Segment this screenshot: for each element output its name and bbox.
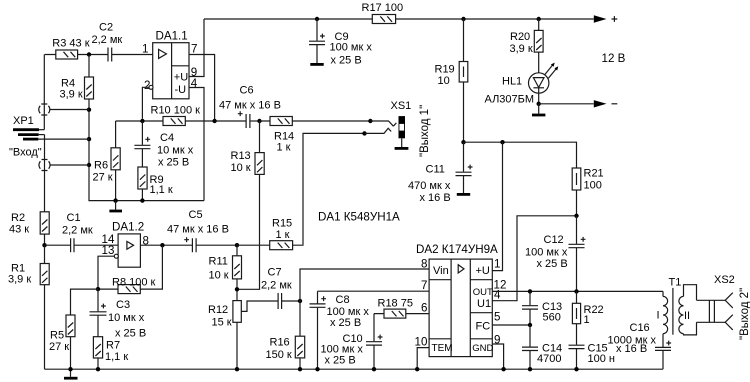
- node R11-R12-R13 junction: [235, 287, 239, 291]
- svg-text:x 16 В: x 16 В: [420, 192, 451, 204]
- node jack2 tap: [87, 163, 91, 167]
- svg-text:+U: +U: [476, 265, 490, 277]
- svg-text:470 мк x: 470 мк x: [408, 180, 451, 192]
- wire C11 node to R21: [464, 142, 577, 168]
- svg-text:1: 1: [142, 43, 148, 56]
- svg-text:C3: C3: [116, 299, 130, 311]
- node rail pin9: [501, 367, 505, 371]
- wire minus line: [539, 103, 594, 105]
- capacitor C12: [525, 216, 586, 292]
- node rail pin10: [415, 367, 419, 371]
- wire pin2 to R10 node: [142, 87, 149, 119]
- svg-text:2,2 мк: 2,2 мк: [92, 34, 123, 46]
- svg-text:XP1: XP1: [13, 115, 34, 127]
- transformer T1 core: [672, 288, 674, 335]
- node R2-R1-C1 junction: [42, 243, 46, 247]
- resistor R10: [151, 105, 201, 126]
- node DA1.2 output junction: [160, 243, 164, 247]
- label minus: [612, 103, 618, 105]
- svg-text:27 к: 27 к: [93, 172, 113, 184]
- wire pin7 line C8: [318, 291, 430, 303]
- op-amp DA1.2: [112, 221, 144, 268]
- svg-text:12 В: 12 В: [602, 52, 626, 65]
- svg-text:C7: C7: [268, 267, 282, 279]
- node rail C10: [372, 367, 376, 371]
- svg-text:R19: R19: [435, 64, 455, 76]
- svg-text:47 мк x 16 В: 47 мк x 16 В: [167, 224, 229, 236]
- node R19 top: [461, 17, 465, 21]
- svg-text:10 к: 10 к: [231, 162, 251, 174]
- resistor R3: [52, 38, 89, 60]
- svg-text:10 к: 10 к: [209, 270, 229, 282]
- svg-text:R16: R16: [270, 337, 290, 349]
- svg-text:100 мк x: 100 мк x: [330, 42, 373, 54]
- wire pin5: [492, 324, 530, 326]
- arrow minus terminal: [594, 100, 607, 107]
- transformer T1 winding I: [657, 291, 668, 347]
- svg-text:R11: R11: [209, 256, 228, 268]
- wire DA1.2 output: [140, 244, 192, 246]
- ground symbol bottom rail: [64, 369, 78, 378]
- svg-text:C8: C8: [336, 294, 350, 306]
- svg-text:C16: C16: [630, 322, 650, 334]
- node R9 bottom on gnd rail: [140, 198, 144, 202]
- capacitor C11: [408, 142, 473, 204]
- svg-text:15 к: 15 к: [212, 317, 232, 329]
- svg-text:R7: R7: [106, 340, 120, 352]
- svg-text:x 25 В: x 25 В: [115, 328, 146, 340]
- svg-text:1,1 к: 1,1 к: [105, 351, 128, 363]
- node R3-C2-R4 junction: [87, 52, 91, 56]
- svg-text:Vin: Vin: [433, 265, 449, 277]
- node C11 top junction: [461, 140, 465, 144]
- resistor R12 with tap: [208, 301, 278, 370]
- svg-text:x 16 В: x 16 В: [616, 343, 647, 355]
- svg-text:C2: C2: [99, 22, 113, 34]
- capacitor C6: [219, 85, 281, 129]
- node C5 right junction: [235, 243, 239, 247]
- node HL1 bottom: [537, 102, 541, 106]
- svg-text:100: 100: [584, 180, 602, 192]
- capacitor C10: [321, 314, 383, 370]
- wire middle ground column x89: [89, 104, 204, 201]
- wire R10 line y121: [116, 120, 246, 122]
- svg-text:1: 1: [494, 258, 500, 271]
- connector XP1 plug bars: [13, 115, 89, 139]
- connector XS1 ground: [395, 138, 409, 148]
- node pin1 riser junction: [500, 140, 504, 144]
- svg-text:1,1 к: 1,1 к: [150, 184, 173, 196]
- arrow plus terminal: [594, 15, 607, 22]
- pin 2 inversion circle DA1.1: [149, 85, 153, 89]
- svg-text:x 25 В: x 25 В: [325, 355, 356, 367]
- svg-text:150 к: 150 к: [266, 349, 292, 361]
- node R6 bottom on gnd rail: [113, 198, 117, 202]
- node rail C14: [528, 367, 532, 371]
- svg-text:R3 43 к: R3 43 к: [52, 38, 89, 50]
- wire pin13 feedback: [98, 256, 114, 289]
- capacitor C16: [608, 322, 672, 369]
- svg-text:R8 100 к: R8 100 к: [112, 277, 156, 289]
- wire pin4 link: [492, 216, 576, 301]
- svg-text:10: 10: [415, 336, 428, 349]
- node rail R5: [68, 367, 72, 371]
- svg-text:1 к: 1 к: [276, 229, 290, 241]
- node rail C8: [315, 367, 319, 371]
- svg-text:GND: GND: [472, 343, 493, 354]
- svg-text:7: 7: [191, 43, 197, 56]
- svg-text:HL1: HL1: [502, 76, 522, 88]
- resistor R15: [237, 218, 303, 250]
- svg-text:DA1 К548УН1А: DA1 К548УН1А: [318, 211, 400, 224]
- wire to R5: [71, 289, 99, 315]
- resistor R22: [572, 291, 603, 344]
- svg-text:1: 1: [584, 314, 590, 326]
- resistor R19: [435, 19, 468, 142]
- svg-text:43 к: 43 к: [9, 224, 29, 236]
- resistor R5: [49, 315, 75, 369]
- svg-text:10: 10: [438, 75, 450, 87]
- connector XS1 lower contact: [365, 128, 392, 133]
- wire pin12 out rail: [492, 290, 663, 292]
- wire pin4 to ground rail: [189, 88, 204, 201]
- capacitor C14: [522, 325, 562, 369]
- svg-text:2,2 мк: 2,2 мк: [62, 225, 93, 237]
- capacitor C9: [309, 19, 372, 67]
- svg-text:R18 75: R18 75: [378, 298, 413, 310]
- wire pin10: [417, 348, 429, 370]
- connector XS2 wires and pins: [697, 300, 726, 322]
- svg-text:R13: R13: [231, 150, 251, 162]
- resistor R14: [260, 117, 371, 154]
- svg-text:FC: FC: [476, 321, 491, 333]
- svg-text:4: 4: [494, 289, 501, 302]
- capacitor C5: [167, 209, 237, 252]
- wire pin9 to top rail: [189, 19, 204, 77]
- svg-text:2,2 мк: 2,2 мк: [261, 280, 292, 292]
- svg-text:x 25 В: x 25 В: [537, 258, 568, 270]
- resistor R18: [374, 298, 429, 319]
- resistor R11: [209, 245, 242, 300]
- connector XS1 jack body: [399, 116, 406, 138]
- node C7-R16-pin8 junction: [298, 299, 302, 303]
- connector XP1 socket contact 2: [39, 135, 89, 212]
- svg-text:R20: R20: [510, 31, 530, 43]
- svg-text:x 25 В: x 25 В: [158, 157, 189, 169]
- svg-text:4700: 4700: [537, 353, 561, 365]
- svg-text:"Выход 2": "Выход 2": [739, 288, 750, 340]
- resistor R4: [60, 55, 94, 105]
- node XS1 lower wire junction: [362, 131, 366, 135]
- LED HL1: [485, 63, 559, 106]
- capacitor C15: [569, 343, 615, 370]
- svg-text:C4: C4: [160, 132, 174, 144]
- connector XS2 upper contact: [725, 293, 733, 308]
- node jack1 tap: [87, 108, 91, 112]
- node C6 right junction: [257, 119, 261, 123]
- capacitor C7: [261, 267, 300, 310]
- wire pin8 riser: [300, 269, 429, 301]
- svg-text:DA1.2: DA1.2: [112, 221, 144, 234]
- svg-text:100 мк x: 100 мк x: [525, 247, 568, 259]
- wire R15 riser to XS1 lower contact: [303, 133, 365, 244]
- connector XS1 upper contact: [370, 121, 396, 126]
- svg-text:II: II: [684, 310, 690, 322]
- capacitor C2: [92, 22, 123, 62]
- svg-text:U1: U1: [477, 298, 491, 310]
- svg-text:XS2: XS2: [714, 274, 735, 286]
- capacitor C1: [45, 212, 119, 252]
- capacitor C3: [90, 289, 147, 339]
- node R10 left junction: [140, 119, 144, 123]
- wire pin7 down to R10-C6 node: [189, 55, 215, 122]
- svg-text:560: 560: [543, 312, 561, 324]
- resistor R8: [98, 245, 162, 293]
- node out rail C13: [528, 289, 532, 293]
- svg-text:27 к: 27 к: [49, 341, 69, 353]
- svg-text:47 мк x 16 В: 47 мк x 16 В: [219, 100, 281, 112]
- svg-text:R2: R2: [11, 212, 25, 224]
- svg-text:R17 100: R17 100: [362, 2, 404, 14]
- svg-text:"Вход": "Вход": [9, 147, 42, 159]
- node R8 left junction: [96, 287, 100, 291]
- svg-text:7: 7: [421, 279, 427, 292]
- ground symbol stage1: [109, 201, 122, 211]
- svg-text:C5: C5: [189, 209, 203, 221]
- wire pin9 gnd: [492, 344, 503, 369]
- node XS1 upper wire junction: [368, 119, 372, 123]
- node pin5 C13 C14 junction: [528, 323, 532, 327]
- svg-text:6: 6: [421, 302, 427, 315]
- capacitor C4: [134, 121, 193, 169]
- ground symbol HL1: [532, 104, 545, 115]
- capacitor C13: [522, 291, 562, 325]
- capacitor C8: [310, 294, 370, 369]
- svg-text:10 мк x: 10 мк x: [157, 145, 194, 157]
- svg-text:DA1.1: DA1.1: [156, 30, 188, 43]
- node rail R16: [298, 367, 302, 371]
- connector XS2 lower contact: [725, 315, 733, 330]
- svg-text:TEM: TEM: [432, 343, 453, 354]
- resistor R9: [138, 167, 173, 201]
- svg-text:XS1: XS1: [391, 100, 412, 112]
- svg-text:I: I: [657, 310, 660, 322]
- svg-text:OUT: OUT: [473, 287, 493, 298]
- svg-text:"Выход 1": "Выход 1": [419, 105, 431, 157]
- svg-text:R15: R15: [272, 218, 292, 230]
- svg-text:3,9 к: 3,9 к: [60, 89, 83, 101]
- svg-text:5: 5: [494, 311, 500, 324]
- svg-text:10 мк x: 10 мк x: [108, 312, 145, 324]
- node out rail R22: [574, 289, 578, 293]
- resistor R21: [572, 168, 603, 216]
- node R20 top: [537, 17, 541, 21]
- svg-text:R10 100 к: R10 100 к: [151, 105, 201, 117]
- op-amp DA1.1: [153, 30, 189, 99]
- svg-text:C12: C12: [544, 234, 564, 246]
- node R21 bottom junction: [574, 214, 578, 218]
- svg-text:-U: -U: [175, 84, 187, 96]
- label plus: [612, 16, 618, 22]
- svg-text:+U: +U: [174, 72, 188, 84]
- node bar3 tap: [87, 137, 91, 141]
- svg-text:R21: R21: [584, 168, 604, 180]
- svg-text:x 25 В: x 25 В: [331, 55, 362, 67]
- svg-text:3,9 к: 3,9 к: [8, 274, 31, 286]
- node rail R7: [96, 367, 100, 371]
- svg-text:АЛ307БМ: АЛ307БМ: [485, 94, 535, 106]
- svg-text:DA2 К174УН9А: DA2 К174УН9А: [416, 243, 498, 256]
- resistor R2: [9, 212, 49, 245]
- resistor R6: [93, 121, 121, 201]
- svg-text:13: 13: [102, 244, 115, 257]
- pin 13 inversion circle DA1.2: [114, 254, 118, 258]
- connector XP1 socket contact 1: [39, 55, 89, 130]
- resistor R17: [362, 2, 404, 24]
- wire bottom ground rail: [45, 368, 664, 370]
- svg-text:C6: C6: [240, 85, 254, 97]
- resistor R16: [266, 301, 305, 369]
- svg-text:1 к: 1 к: [277, 142, 291, 154]
- resistor R7: [93, 337, 128, 370]
- svg-text:8: 8: [421, 258, 427, 271]
- resistor R1: [8, 245, 49, 369]
- svg-text:3,9 к: 3,9 к: [510, 43, 533, 55]
- IC DA2 box: [416, 243, 498, 357]
- svg-text:T1: T1: [669, 277, 682, 289]
- transformer T1 winding II: [679, 285, 697, 335]
- wire pin1 riser: [492, 142, 502, 270]
- svg-text:C1: C1: [67, 212, 81, 224]
- wire top supply rail: [204, 18, 594, 20]
- node rail R12: [235, 367, 239, 371]
- svg-text:R6: R6: [94, 160, 108, 172]
- svg-text:R5: R5: [50, 330, 64, 342]
- svg-text:R12: R12: [208, 304, 228, 316]
- svg-text:100 н: 100 н: [588, 353, 615, 365]
- resistor R20: [510, 19, 544, 73]
- svg-text:x 25 В: x 25 В: [330, 317, 361, 329]
- resistor R13: [231, 121, 265, 289]
- node R10 right junction: [212, 119, 216, 123]
- svg-text:C11: C11: [426, 164, 445, 176]
- node C9 top: [315, 17, 319, 21]
- node rail C15: [574, 367, 578, 371]
- wire input top line: [45, 54, 153, 56]
